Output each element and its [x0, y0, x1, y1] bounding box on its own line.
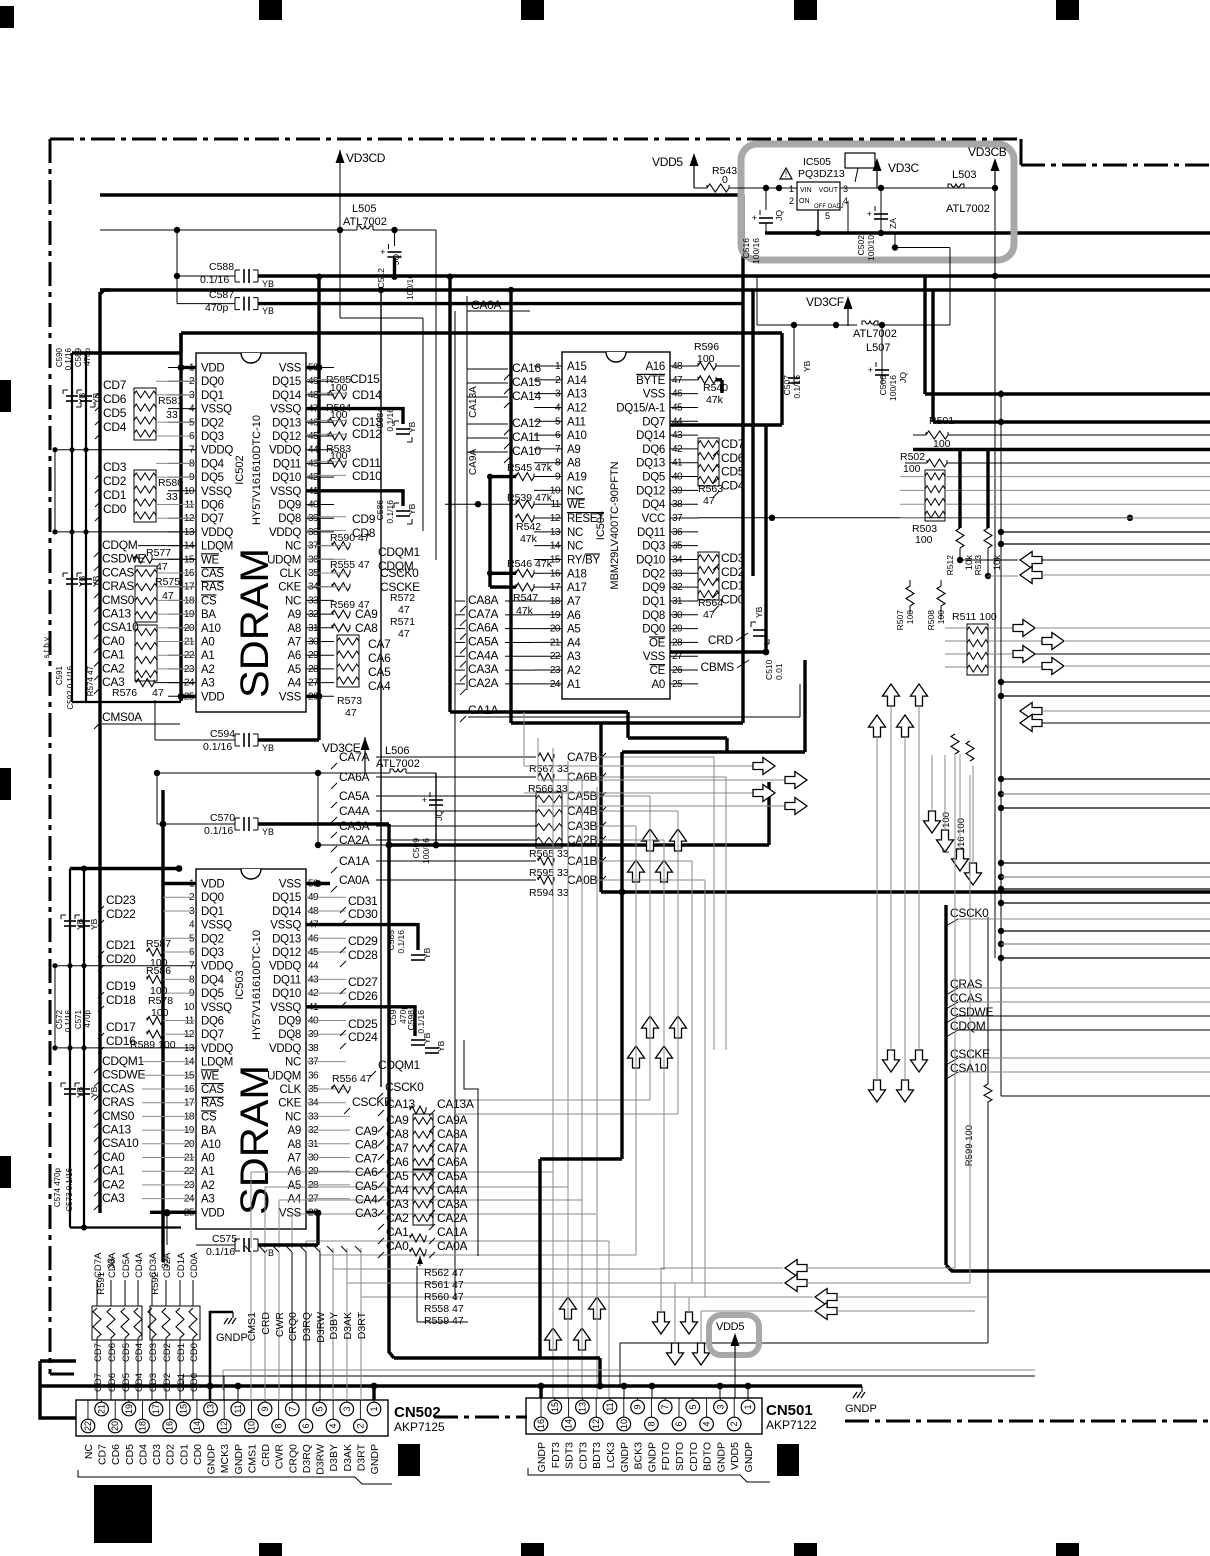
svg-text:MBM29LV400TC-90PFTN: MBM29LV400TC-90PFTN — [609, 461, 621, 589]
svg-text:+: + — [867, 210, 872, 220]
svg-text:VSSQ: VSSQ — [270, 404, 301, 416]
svg-text:47k: 47k — [706, 394, 724, 406]
svg-text:CD23: CD23 — [106, 893, 136, 907]
svg-text:DQ5: DQ5 — [201, 472, 224, 484]
svg-text:0.1/16: 0.1/16 — [792, 375, 802, 399]
svg-text:C507: C507 — [782, 375, 792, 396]
svg-text:CD26: CD26 — [348, 989, 378, 1003]
svg-text:VIN: VIN — [800, 187, 812, 194]
svg-text:CA7: CA7 — [386, 1141, 409, 1155]
svg-text:CA4: CA4 — [355, 1193, 378, 1207]
svg-text:0.1/16: 0.1/16 — [204, 825, 233, 837]
svg-text:DQ10: DQ10 — [636, 554, 665, 566]
svg-text:NC: NC — [285, 1057, 301, 1069]
svg-text:CA6A: CA6A — [468, 621, 498, 635]
svg-text:DQ14: DQ14 — [272, 390, 302, 402]
svg-text:CA6: CA6 — [368, 651, 391, 665]
svg-text:CA1: CA1 — [102, 1164, 125, 1178]
svg-text:NC: NC — [83, 1444, 95, 1460]
svg-text:3: 3 — [843, 184, 848, 194]
svg-text:CA8: CA8 — [355, 621, 378, 635]
svg-text:4: 4 — [702, 1421, 712, 1426]
svg-text:AKP7125: AKP7125 — [394, 1420, 445, 1434]
svg-text:CA9A: CA9A — [437, 1113, 467, 1127]
svg-text:CD9: CD9 — [352, 512, 376, 526]
svg-text:BYTE: BYTE — [636, 375, 665, 387]
svg-text:CD19: CD19 — [106, 979, 136, 993]
svg-text:ATL7002: ATL7002 — [853, 328, 897, 340]
svg-text:YB: YB — [407, 503, 417, 515]
svg-text:CA5A: CA5A — [437, 1169, 467, 1183]
svg-text:DQ3: DQ3 — [642, 541, 665, 553]
svg-text:CA2: CA2 — [102, 1177, 125, 1191]
svg-text:CA2: CA2 — [386, 1211, 409, 1225]
svg-text:R571: R571 — [390, 616, 415, 628]
svg-text:YB: YB — [262, 1248, 274, 1258]
svg-text:A18: A18 — [567, 568, 587, 580]
svg-text:CD0: CD0 — [192, 1444, 204, 1465]
svg-text:R502: R502 — [900, 451, 925, 463]
svg-text:CD4: CD4 — [137, 1444, 149, 1465]
svg-text:YB: YB — [75, 918, 85, 930]
svg-text:CCAS: CCAS — [102, 1081, 134, 1095]
svg-text:CMS0A: CMS0A — [102, 710, 142, 724]
svg-text:DQ6: DQ6 — [201, 1016, 224, 1028]
svg-text:CLK: CLK — [280, 1084, 302, 1096]
svg-text:CD24: CD24 — [348, 1030, 378, 1044]
svg-text:3: 3 — [342, 1406, 352, 1411]
svg-text:DQ10: DQ10 — [272, 472, 301, 484]
svg-text:CA2A: CA2A — [468, 676, 498, 690]
svg-text:CDQM1: CDQM1 — [378, 1058, 420, 1072]
svg-text:0.01: 0.01 — [774, 663, 784, 680]
svg-text:0.1/16: 0.1/16 — [206, 1246, 235, 1258]
svg-text:CD7: CD7 — [93, 1373, 104, 1392]
svg-text:100: 100 — [903, 463, 921, 475]
svg-text:CD1A: CD1A — [176, 1252, 187, 1278]
svg-text:VDDQ: VDDQ — [201, 527, 233, 539]
svg-text:R507: R507 — [895, 610, 905, 631]
svg-text:R596: R596 — [694, 341, 719, 353]
svg-text:CA3: CA3 — [386, 1197, 409, 1211]
svg-text:CA5: CA5 — [386, 1169, 409, 1183]
svg-text:CD6: CD6 — [721, 451, 745, 465]
svg-text:VD3C: VD3C — [888, 161, 919, 175]
svg-text:DQ4: DQ4 — [201, 458, 225, 470]
svg-text:A16: A16 — [645, 361, 665, 373]
svg-text:13: 13 — [577, 1402, 587, 1412]
svg-text:CRQ0: CRQ0 — [287, 1312, 299, 1341]
svg-text:BDTO: BDTO — [702, 1442, 714, 1471]
svg-text:CD15: CD15 — [350, 372, 380, 386]
svg-text:C589: C589 — [74, 347, 83, 367]
svg-text:CD4A: CD4A — [134, 1252, 145, 1278]
svg-text:47: 47 — [152, 687, 164, 699]
svg-text:RAS: RAS — [201, 1098, 224, 1110]
svg-text:R573: R573 — [337, 695, 362, 707]
svg-text:CA0: CA0 — [102, 1150, 125, 1164]
svg-text:CD6: CD6 — [107, 1373, 118, 1392]
svg-text:YB: YB — [262, 827, 274, 837]
svg-text:R591: R591 — [96, 1272, 107, 1295]
svg-text:11: 11 — [233, 1404, 243, 1413]
svg-text:R501: R501 — [929, 415, 954, 427]
svg-text:CA16: CA16 — [512, 361, 541, 375]
svg-text:CA4A: CA4A — [437, 1183, 467, 1197]
svg-text:4: 4 — [328, 1423, 338, 1428]
svg-text:BA: BA — [201, 609, 216, 621]
svg-text:CWR: CWR — [274, 1444, 286, 1469]
svg-text:+: + — [868, 366, 873, 376]
svg-text:A12: A12 — [567, 402, 587, 414]
svg-text:L506: L506 — [385, 745, 409, 757]
svg-text:DQ11: DQ11 — [273, 458, 301, 470]
svg-text:CSDWE: CSDWE — [102, 552, 145, 566]
svg-text:CD3: CD3 — [148, 1343, 159, 1362]
svg-text:VD3CD: VD3CD — [346, 151, 386, 165]
svg-text:R577: R577 — [146, 547, 171, 559]
svg-text:YB: YB — [75, 1086, 85, 1098]
svg-text:DQ13: DQ13 — [272, 417, 301, 429]
svg-text:R590 47: R590 47 — [330, 532, 370, 544]
svg-text:VD3CE: VD3CE — [322, 741, 361, 755]
svg-text:CD0: CD0 — [189, 1343, 200, 1362]
svg-text:CA4A: CA4A — [339, 804, 369, 818]
svg-text:CA8A: CA8A — [468, 593, 498, 607]
svg-text:CRQ0: CRQ0 — [287, 1444, 299, 1473]
svg-text:CD3: CD3 — [721, 551, 745, 565]
svg-text:C512: C512 — [376, 268, 386, 289]
svg-text:YB: YB — [89, 1086, 99, 1098]
svg-text:DQ7: DQ7 — [201, 1029, 224, 1041]
svg-text:C594: C594 — [210, 728, 235, 740]
svg-text:DQ15/A-1: DQ15/A-1 — [616, 402, 665, 414]
svg-text:CA9: CA9 — [355, 607, 378, 621]
svg-text:DQ13: DQ13 — [636, 458, 665, 470]
svg-text:WE: WE — [201, 554, 220, 566]
svg-text:A7: A7 — [288, 1153, 301, 1165]
svg-text:CD5: CD5 — [721, 465, 745, 479]
svg-text:CD2: CD2 — [103, 474, 127, 488]
svg-text:R546 47k: R546 47k — [507, 558, 553, 570]
svg-text:CA6: CA6 — [386, 1155, 409, 1169]
svg-text:DQ7: DQ7 — [642, 416, 665, 428]
svg-text:LDQM: LDQM — [201, 1057, 233, 1069]
svg-text:DQ5: DQ5 — [642, 472, 665, 484]
svg-text:1: 1 — [789, 184, 794, 194]
svg-text:VSS: VSS — [279, 363, 302, 375]
svg-text:NC: NC — [567, 541, 583, 553]
svg-text:A15: A15 — [567, 361, 587, 373]
svg-text:CD7: CD7 — [103, 378, 127, 392]
svg-text:R540: R540 — [703, 382, 728, 394]
svg-text:JQ: JQ — [898, 372, 908, 383]
svg-text:VD3CF: VD3CF — [806, 295, 844, 309]
svg-text:0.1/16: 0.1/16 — [385, 408, 395, 432]
svg-text:R581: R581 — [158, 395, 183, 407]
svg-text:A13: A13 — [567, 389, 587, 401]
svg-text:R513: R513 — [973, 555, 983, 576]
svg-text:A19: A19 — [567, 472, 587, 484]
svg-text:DQ8: DQ8 — [278, 1029, 301, 1041]
svg-text:4: 4 — [843, 196, 848, 206]
svg-text:C584: C584 — [375, 408, 385, 429]
svg-text:VDD: VDD — [201, 879, 224, 891]
svg-text:A10: A10 — [567, 430, 587, 442]
svg-text:CA1A: CA1A — [468, 703, 498, 717]
svg-text:CA15: CA15 — [512, 375, 541, 389]
svg-text:47: 47 — [398, 628, 410, 640]
svg-text:CA0: CA0 — [102, 634, 125, 648]
svg-text:DQ9: DQ9 — [278, 500, 301, 512]
svg-text:ON: ON — [799, 198, 810, 205]
svg-text:A10: A10 — [201, 623, 221, 635]
svg-text:CCAS: CCAS — [102, 565, 134, 579]
svg-text:CRD: CRD — [260, 1312, 272, 1335]
svg-text:R594 33: R594 33 — [529, 887, 569, 899]
svg-text:GNDP: GNDP — [206, 1444, 218, 1474]
svg-text:R545 47k: R545 47k — [507, 462, 553, 474]
svg-text:CA0A: CA0A — [471, 298, 501, 312]
svg-text:MCK3: MCK3 — [219, 1444, 231, 1473]
svg-text:CSA10: CSA10 — [102, 1136, 139, 1150]
svg-text:CA5: CA5 — [368, 665, 391, 679]
svg-text:8: 8 — [646, 1421, 656, 1426]
svg-text:YB: YB — [802, 360, 812, 372]
svg-text:R555 47: R555 47 — [330, 559, 370, 571]
svg-text:DQ7: DQ7 — [201, 513, 224, 525]
svg-text:CA3A: CA3A — [339, 819, 369, 833]
svg-text:VOUT: VOUT — [819, 187, 839, 194]
svg-text:YB: YB — [754, 606, 764, 618]
svg-text:CD27: CD27 — [348, 975, 378, 989]
svg-text:100: 100 — [915, 534, 933, 546]
svg-text:YB: YB — [407, 421, 417, 433]
svg-text:100/16: 100/16 — [751, 238, 761, 264]
svg-text:D3AK: D3AK — [342, 1312, 354, 1339]
svg-text:10: 10 — [184, 1002, 195, 1013]
svg-text:CA13: CA13 — [102, 607, 131, 621]
svg-text:C592 0.1/16: C592 0.1/16 — [66, 665, 75, 709]
svg-text:YB: YB — [89, 918, 99, 930]
svg-text:16: 16 — [165, 1421, 175, 1431]
svg-text:CA7: CA7 — [355, 1151, 378, 1165]
svg-text:CD2: CD2 — [162, 1343, 173, 1362]
svg-text:D3RQ: D3RQ — [301, 1312, 313, 1341]
svg-text:5: 5 — [688, 1404, 698, 1409]
svg-text:+: + — [422, 796, 427, 806]
svg-text:VDD5: VDD5 — [729, 1442, 741, 1470]
svg-text:33: 33 — [106, 1258, 117, 1269]
svg-text:CKE: CKE — [278, 582, 301, 594]
svg-text:A1: A1 — [201, 650, 214, 662]
svg-text:R589 100: R589 100 — [130, 1039, 176, 1051]
svg-text:NC: NC — [285, 541, 301, 553]
svg-text:CD5: CD5 — [121, 1343, 132, 1362]
svg-text:RAS: RAS — [201, 582, 224, 594]
svg-text:CRD: CRD — [708, 633, 734, 647]
svg-text:DQ13: DQ13 — [272, 933, 301, 945]
svg-text:CDQM1: CDQM1 — [102, 1054, 144, 1068]
svg-text:+: + — [380, 248, 385, 258]
svg-text:A9: A9 — [288, 609, 301, 621]
svg-text:CA9: CA9 — [386, 1113, 409, 1127]
svg-text:CD2: CD2 — [165, 1444, 177, 1465]
svg-text:DQ9: DQ9 — [278, 1016, 301, 1028]
svg-text:CA1A: CA1A — [437, 1225, 467, 1239]
svg-text:R567 33: R567 33 — [529, 763, 569, 775]
svg-text:DQ5: DQ5 — [201, 988, 224, 1000]
svg-text:R559 47: R559 47 — [424, 1315, 464, 1327]
svg-text:DQ11: DQ11 — [273, 974, 301, 986]
svg-text:CAS: CAS — [201, 1084, 224, 1096]
svg-text:VSSQ: VSSQ — [201, 486, 232, 498]
svg-text:C502: C502 — [856, 235, 866, 256]
svg-text:VDDQ: VDDQ — [201, 961, 233, 973]
svg-text:A6: A6 — [288, 650, 301, 662]
svg-text:A3: A3 — [201, 1194, 214, 1206]
svg-text:CD5: CD5 — [103, 406, 127, 420]
svg-text:CA0A: CA0A — [339, 873, 369, 887]
svg-text:21: 21 — [97, 1404, 107, 1414]
svg-text:CA4: CA4 — [368, 679, 391, 693]
svg-text:YB: YB — [436, 1040, 446, 1052]
svg-text:CD7: CD7 — [93, 1343, 104, 1362]
svg-text:CD3: CD3 — [148, 1373, 159, 1392]
svg-text:47: 47 — [703, 609, 715, 621]
svg-text:YB: YB — [422, 947, 432, 959]
svg-text:CDQM1: CDQM1 — [378, 545, 420, 559]
svg-text:DQ14: DQ14 — [272, 906, 302, 918]
svg-text:9: 9 — [260, 1406, 270, 1411]
svg-text:C575: C575 — [212, 1233, 237, 1245]
svg-text:VDD: VDD — [201, 1207, 224, 1219]
svg-text:R574 47: R574 47 — [86, 665, 95, 696]
svg-text:FDTO: FDTO — [660, 1442, 672, 1470]
svg-text:CD5A: CD5A — [121, 1252, 132, 1278]
svg-text:36: 36 — [308, 1070, 319, 1081]
svg-text:A17: A17 — [567, 582, 587, 594]
svg-text:IC504: IC504 — [595, 511, 607, 540]
svg-text:VDDQ: VDDQ — [269, 527, 301, 539]
svg-text:33: 33 — [166, 491, 178, 503]
svg-text:DQ15: DQ15 — [272, 376, 301, 388]
svg-text:s t b y: s t b y — [42, 637, 51, 658]
svg-text:100/16: 100/16 — [421, 838, 431, 864]
svg-text:CAS: CAS — [201, 568, 224, 580]
svg-text:CA5A: CA5A — [468, 634, 498, 648]
svg-text:R592: R592 — [150, 1272, 161, 1295]
svg-text:1: 1 — [743, 1404, 753, 1409]
svg-text:A1: A1 — [201, 1166, 214, 1178]
svg-text:VSS: VSS — [643, 651, 666, 663]
svg-text:CSCK0: CSCK0 — [385, 1080, 424, 1094]
svg-text:CD0: CD0 — [103, 502, 127, 516]
svg-text:C516: C516 — [741, 238, 751, 259]
svg-text:VDD5: VDD5 — [716, 1321, 744, 1333]
svg-text:CA3: CA3 — [355, 1206, 378, 1220]
svg-text:6: 6 — [674, 1421, 684, 1426]
svg-text:VDDQ: VDDQ — [201, 1043, 233, 1055]
svg-text:20: 20 — [110, 1421, 120, 1431]
svg-text:CMS0: CMS0 — [102, 593, 135, 607]
svg-text:A4: A4 — [288, 678, 302, 690]
svg-text:2: 2 — [729, 1421, 739, 1426]
svg-text:CA10: CA10 — [512, 444, 541, 458]
svg-text:!: ! — [785, 170, 787, 179]
svg-text:A7: A7 — [288, 637, 301, 649]
svg-text:GNDP: GNDP — [369, 1444, 381, 1474]
svg-text:14: 14 — [192, 1421, 202, 1431]
svg-text:A4: A4 — [567, 637, 581, 649]
svg-text:NC: NC — [567, 485, 583, 497]
svg-text:C573 0.1/16: C573 0.1/16 — [65, 1167, 74, 1211]
svg-text:SDT3: SDT3 — [564, 1442, 576, 1469]
svg-text:BCK3: BCK3 — [633, 1442, 645, 1470]
svg-text:IC503: IC503 — [234, 970, 246, 999]
svg-text:D3RT: D3RT — [356, 1311, 368, 1339]
svg-text:NC: NC — [285, 595, 301, 607]
svg-text:CE: CE — [650, 665, 666, 677]
svg-text:L507: L507 — [866, 342, 890, 354]
svg-text:CD20: CD20 — [106, 952, 136, 966]
svg-text:CRAS: CRAS — [102, 1095, 134, 1109]
svg-text:A9: A9 — [567, 444, 580, 456]
svg-text:DQ4: DQ4 — [201, 974, 225, 986]
svg-text:DQ2: DQ2 — [642, 568, 665, 580]
svg-text:L503: L503 — [952, 169, 976, 181]
svg-text:DQ0: DQ0 — [201, 892, 224, 904]
svg-text:R508: R508 — [926, 610, 936, 631]
svg-text:A8: A8 — [567, 458, 580, 470]
svg-text:DQ11: DQ11 — [637, 527, 665, 539]
svg-text:R564: R564 — [698, 597, 723, 609]
svg-text:GNDP: GNDP — [536, 1442, 548, 1472]
svg-text:VSSQ: VSSQ — [201, 404, 232, 416]
svg-text:CD5: CD5 — [121, 1373, 132, 1392]
svg-text:VD3CB: VD3CB — [968, 145, 1007, 159]
svg-text:HY57V161610DTC-10: HY57V161610DTC-10 — [251, 930, 263, 1040]
svg-text:CWR: CWR — [274, 1312, 286, 1337]
svg-text:C586: C586 — [375, 500, 385, 521]
svg-text:CN501: CN501 — [766, 1402, 813, 1419]
svg-text:DQ8: DQ8 — [278, 513, 301, 525]
svg-text:DQ1: DQ1 — [201, 906, 224, 918]
svg-text:A0: A0 — [201, 637, 214, 649]
svg-text:LDQM: LDQM — [201, 541, 233, 553]
svg-text:13: 13 — [206, 1404, 216, 1414]
svg-text:R561 47: R561 47 — [424, 1279, 464, 1291]
svg-text:CD4: CD4 — [103, 420, 127, 434]
svg-text:CD0A: CD0A — [189, 1252, 200, 1278]
svg-text:R587: R587 — [146, 938, 171, 950]
svg-text:47k: 47k — [520, 533, 538, 545]
svg-text:D3AK: D3AK — [342, 1444, 354, 1471]
svg-text:C572: C572 — [55, 1009, 64, 1029]
svg-text:CD2: CD2 — [721, 565, 745, 579]
svg-text:A5: A5 — [288, 1180, 301, 1192]
svg-text:HY57V161610DTC-10: HY57V161610DTC-10 — [251, 415, 263, 525]
svg-text:VDDQ: VDDQ — [269, 445, 301, 457]
svg-text:C509: C509 — [411, 838, 421, 859]
svg-text:CD28: CD28 — [348, 948, 378, 962]
svg-text:NC: NC — [567, 527, 583, 539]
svg-text:OE: OE — [649, 637, 666, 649]
svg-text:CA2A: CA2A — [437, 1211, 467, 1225]
svg-text:CD11: CD11 — [352, 456, 381, 470]
svg-text:BDT3: BDT3 — [591, 1442, 603, 1469]
svg-text:C571: C571 — [74, 1009, 83, 1029]
